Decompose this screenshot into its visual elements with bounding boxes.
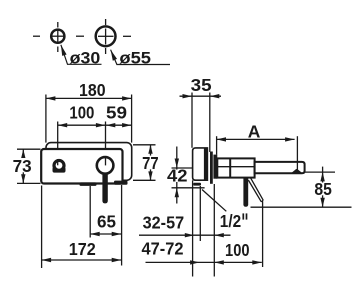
ext A left (wall front up)	[216, 136, 218, 154]
lever front	[102, 165, 107, 203]
svg-text:100: 100	[69, 103, 94, 123]
ext line left 180	[45, 95, 47, 143]
ext line valve center	[105, 122, 107, 166]
lever side open position	[248, 178, 263, 202]
ext line into valve center	[105, 158, 107, 166]
svg-text:77: 77	[142, 153, 159, 173]
dim A	[217, 138, 295, 140]
svg-text:85: 85	[314, 179, 332, 199]
spout body side	[217, 158, 254, 177]
dim 73	[17, 148, 41, 150]
svg-text:180: 180	[79, 80, 106, 100]
ext 35 right	[209, 93, 211, 153]
spout pipe	[255, 162, 305, 173]
svg-text:ø30: ø30	[70, 50, 101, 68]
outlet wedge	[291, 169, 303, 173]
leader 1/2 inch	[202, 190, 226, 212]
escutcheon front collar	[213, 155, 217, 179]
tab bottom left	[80, 182, 97, 186]
dim 47-72 and 100	[146, 261, 262, 263]
svg-text:1/2: 1/2	[220, 211, 242, 231]
block foot	[193, 183, 201, 186]
dim 42	[172, 167, 193, 169]
ext line right 180/59	[131, 95, 133, 143]
block dark collar	[204, 148, 208, 180]
svg-text:35: 35	[191, 75, 212, 95]
leader d30	[61, 45, 102, 65]
ext 35 left	[191, 93, 193, 148]
front body	[41, 149, 122, 184]
dim 65	[90, 233, 121, 235]
ext A right inside pipe	[296, 136, 298, 172]
dim 172	[42, 259, 122, 261]
ext line into knob center	[57, 159, 59, 165]
svg-text:100: 100	[225, 240, 250, 260]
dim 32-57	[139, 234, 231, 236]
centerline horizontal through circles	[33, 35, 131, 37]
dim 77	[133, 144, 156, 146]
tab bottom right dark	[114, 181, 128, 185]
wall block side view	[193, 148, 208, 180]
dim 59 line	[106, 124, 132, 126]
svg-text:32-57: 32-57	[143, 213, 185, 233]
dim 180 line	[46, 97, 132, 99]
valve circle front	[97, 157, 114, 174]
centerline vertical circle2	[105, 19, 107, 54]
lever side closed	[243, 170, 248, 207]
svg-text:172: 172	[69, 239, 96, 259]
ext block left down	[192, 180, 194, 276]
svg-text:42: 42	[167, 166, 188, 186]
ext line 65 left	[89, 186, 91, 238]
back plate	[46, 143, 132, 181]
svg-text:59: 59	[106, 103, 127, 123]
spout divider	[229, 158, 231, 177]
dim 35	[180, 95, 222, 97]
ext wall front down	[213, 184, 215, 277]
ext middle short	[199, 186, 201, 241]
spout seam	[217, 166, 254, 168]
svg-text:A: A	[248, 122, 261, 142]
svg-text:73: 73	[13, 156, 32, 176]
svg-text:47-72: 47-72	[142, 238, 184, 258]
svg-text:65: 65	[97, 211, 116, 231]
circle d30	[51, 30, 64, 43]
ext line knob center	[57, 122, 59, 165]
centerline vertical circle1	[57, 22, 59, 52]
ext line 172 left	[41, 186, 43, 269]
ext line 65/172 right	[121, 185, 123, 266]
circle d55	[96, 26, 116, 46]
leader d55	[111, 50, 170, 65]
dim 100 line	[58, 124, 106, 126]
knob	[52, 159, 65, 173]
dim 85	[305, 171, 335, 173]
escutcheon plate	[210, 152, 213, 184]
svg-text:ø55: ø55	[119, 50, 151, 68]
ext 100 right	[262, 201, 264, 267]
